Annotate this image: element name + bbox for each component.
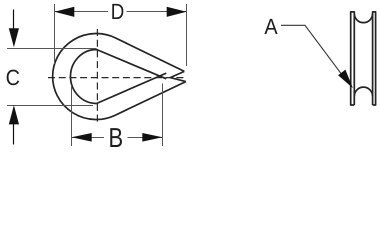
side view body — [351, 12, 376, 105]
B extension line left — [71, 85, 73, 146]
C extension line top — [7, 48, 97, 50]
side view top groove dip — [354, 14, 372, 23]
leader arrowhead — [338, 70, 353, 89]
C arrow up head — [9, 105, 19, 124]
D extension line left — [54, 4, 56, 64]
B extension line right — [162, 84, 164, 147]
C arrow up tail — [13, 123, 15, 145]
label C — [7, 70, 20, 86]
leader line A — [281, 25, 346, 80]
inner teardrop — [70, 50, 166, 104]
C arrow down tail — [13, 10, 15, 31]
B arrow left — [72, 133, 92, 142]
D extension line right — [186, 4, 188, 66]
D arrow right — [167, 7, 187, 17]
horizontal centerline — [48, 77, 187, 79]
label A — [264, 19, 277, 34]
outer teardrop — [53, 34, 186, 120]
side view bottom arch — [354, 87, 372, 96]
vertical centerline — [96, 29, 98, 124]
point chevron strip ends — [170, 71, 186, 81]
C extension line bottom — [7, 105, 93, 107]
label B — [110, 128, 122, 147]
B arrow right — [142, 133, 162, 142]
C arrow down head — [9, 28, 19, 47]
label D — [112, 4, 123, 19]
D dimension line — [55, 11, 187, 13]
B dimension line — [72, 137, 163, 139]
D arrow left — [55, 7, 75, 17]
